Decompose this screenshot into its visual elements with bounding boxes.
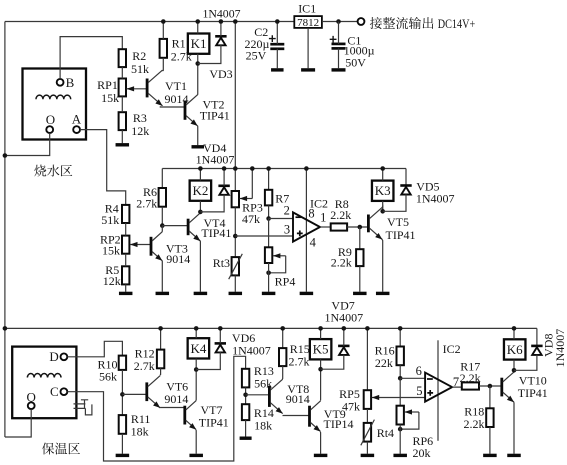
label 保温区: [42, 443, 54, 455]
svg-text:O: O: [46, 112, 55, 127]
wire R16 top to rail: [399, 328, 401, 346]
relay K1: [188, 34, 210, 54]
svg-text:1N4007: 1N4007: [202, 6, 240, 20]
wire RP6 to ground: [399, 425, 401, 454]
svg-text:O: O: [27, 390, 36, 405]
transistor VT4 TIP41: [187, 219, 190, 236]
node R13 / R14 / VT8 base: [243, 393, 248, 398]
node R16 / RP6 / pin6: [398, 376, 403, 381]
svg-text:1N4007: 1N4007: [416, 192, 455, 206]
wire R18 top: [489, 386, 491, 408]
potentiometer RP6 20k: [397, 406, 404, 425]
svg-text:C: C: [50, 384, 59, 399]
plus sign (pin3): [297, 231, 303, 237]
node K2 / VD4 / VT4 collector: [198, 210, 203, 215]
wire R1 to top rail: [162, 22, 164, 39]
resistor R7: [265, 190, 272, 206]
wire RP3 to Rt3: [234, 207, 236, 257]
wire rail to VD8: [536, 328, 538, 346]
svg-text:50V: 50V: [345, 55, 366, 69]
wire noninverting input (pin 3): [235, 235, 293, 237]
node VD7 / bottom rail: [342, 326, 347, 331]
svg-text:DC14V+: DC14V+: [438, 17, 476, 31]
svg-text:D: D: [49, 349, 58, 364]
node RP6 bottom / wiper: [398, 427, 403, 432]
node R6 / VT3 collector / VT4 base: [160, 223, 165, 228]
potentiometer RP2 15k: [122, 236, 129, 254]
svg-text:K4: K4: [190, 341, 206, 356]
wire VT5 collector up: [381, 207, 384, 212]
node R8 / R9 / VT5 base: [358, 225, 363, 230]
wire RP3 wiper up to rail: [251, 169, 253, 199]
wire R17 to VT10 base: [479, 385, 502, 387]
node R16 / bottom rail: [398, 326, 403, 331]
svg-text:2: 2: [284, 204, 290, 218]
wire RP4 to ground: [268, 263, 270, 292]
relay K3: [372, 181, 394, 201]
svg-text:TIP41: TIP41: [201, 226, 231, 240]
terminal C: [61, 388, 68, 395]
diode VD7 1N4007: [338, 345, 349, 348]
ground (C2): [271, 68, 284, 71]
svg-text:IC2: IC2: [310, 197, 328, 211]
svg-text:K1: K1: [191, 36, 207, 51]
svg-text:6: 6: [416, 364, 422, 378]
svg-text:TIP41: TIP41: [199, 415, 229, 429]
wire VT2 collector up to K1: [197, 64, 199, 95]
ground (R18): [483, 454, 497, 457]
svg-text:Rt3: Rt3: [213, 256, 230, 270]
wire O to left bus (boiler): [5, 133, 50, 155]
node bus / top rail: [233, 19, 238, 24]
wire VT3 collector up: [161, 226, 163, 232]
wire K3 top to mid rail: [382, 169, 384, 181]
resistor R9 2.2k: [356, 249, 363, 266]
wire K6 bottom: [513, 360, 515, 371]
wire RP1-R3: [121, 96, 123, 112]
resistor R1 2.7k: [160, 39, 167, 58]
wire VT9 emitter to ground: [320, 432, 322, 454]
RP4 wiper loop: [273, 255, 286, 257]
wire O to left bus (keep-warm): [5, 409, 31, 437]
svg-text:47k: 47k: [242, 212, 260, 226]
wire VT6 emitter to VT7 base: [160, 407, 185, 409]
svg-text:12k: 12k: [103, 274, 121, 288]
svg-text:Rt4: Rt4: [377, 426, 394, 440]
diode VD8 1N4007: [531, 345, 542, 348]
capacitor C1 1000u: [332, 43, 346, 46]
wire RP6 wiper to bottom: [400, 412, 419, 429]
wire IC1 output to DC terminal: [322, 21, 358, 23]
transistor VT3 9014: [150, 237, 153, 256]
svg-text:25V: 25V: [246, 49, 267, 63]
polarity + (C1): [330, 36, 337, 43]
wire inverting input (pin 6): [400, 377, 425, 379]
svg-text:RP4: RP4: [275, 275, 296, 289]
node R12 / bottom rail: [158, 326, 163, 331]
wire R15 to VT8 collector: [281, 366, 284, 379]
wire R11 to ground: [121, 434, 123, 454]
wire op-amp output to R8: [320, 226, 331, 228]
svg-text:3: 3: [284, 223, 290, 237]
wire mid rail down to R6: [161, 169, 163, 189]
wire inverting input (pin 2): [269, 218, 293, 220]
wire R12 top to rail: [160, 328, 162, 349]
wire R10 to R11: [121, 370, 123, 415]
relay K4: [188, 338, 210, 358]
wire vertical bus top-to-middle rail: [234, 22, 236, 169]
transistor VT2 TIP41: [184, 101, 187, 120]
svg-text:K6: K6: [507, 342, 523, 357]
wire RP5 top to rail: [366, 328, 368, 390]
IC2 supply line (bottom half): [437, 340, 439, 441]
resistor R17 2.2k: [462, 382, 479, 389]
wire VT8 emitter to VT9 base: [283, 414, 310, 416]
wire R9 top: [359, 227, 361, 249]
heater coil (boiler): [36, 95, 71, 99]
svg-text:TIP41: TIP41: [386, 228, 416, 242]
svg-text:R1: R1: [172, 37, 186, 51]
node RP3 wiper / mid rail: [250, 166, 255, 171]
svg-text:1: 1: [320, 211, 326, 225]
wire VD7 anode to K5 bottom: [321, 355, 344, 370]
wire B to R2 top: [60, 37, 122, 79]
node R7 / mid rail: [266, 166, 271, 171]
wire C2 to top rail: [276, 22, 278, 45]
keep-warm box 保温区: [12, 347, 76, 419]
op-amp IC2 (bottom half): [425, 373, 452, 402]
potentiometer RP1 15k: [119, 79, 126, 97]
node K3 / VD5 / VT5 collector: [380, 209, 385, 214]
svg-text:1N4007: 1N4007: [232, 344, 271, 358]
resistor R5 12k: [122, 266, 129, 284]
diode VD4 1N4007: [218, 185, 229, 188]
boiler box 烧水区: [23, 69, 87, 140]
wire RP3 top to mid rail: [234, 169, 236, 192]
node pin8 / mid rail: [304, 166, 309, 171]
node RP4 bottom / wiper: [266, 271, 271, 276]
wire VT4 emitter to ground: [199, 241, 201, 292]
ground (VT7): [189, 454, 203, 457]
RP3 wiper: [240, 198, 253, 200]
wire K3 bottom: [382, 201, 384, 211]
polarity + (C2): [269, 35, 276, 42]
svg-text:7812: 7812: [297, 17, 319, 29]
resistor R8 2.2k: [331, 223, 347, 230]
heater coil (keep-warm): [27, 374, 61, 378]
relay K2: [190, 181, 212, 201]
node RP5 / bottom rail: [365, 326, 370, 331]
resistor R16 22k: [397, 347, 404, 366]
wire R8 to VT5 base: [347, 226, 368, 228]
transistor VT9 TIP14: [308, 406, 311, 427]
wire node to VT8 base: [246, 394, 270, 396]
wire VT2 emitter to ground: [197, 126, 199, 146]
svg-text:K5: K5: [313, 342, 329, 357]
transistor VT7 TIP41: [183, 406, 186, 425]
wire VD3 cathode to rail: [220, 22, 222, 37]
ground (RP6): [393, 454, 407, 457]
wire R2-RP1: [121, 67, 123, 78]
svg-text:18k: 18k: [254, 418, 272, 432]
wire C2 to ground: [276, 49, 278, 68]
potentiometer RP3 47k: [232, 191, 239, 207]
relay K6: [504, 339, 526, 359]
ground (R5 chain): [119, 292, 133, 295]
wire node down to RP4: [268, 219, 270, 248]
potentiometer RP4: [265, 247, 272, 263]
transistor VT6 9014: [145, 382, 148, 401]
svg-text:51k: 51k: [101, 213, 119, 227]
wire IC1 ground pin: [307, 28, 309, 68]
node VD6 / bottom rail: [218, 326, 223, 331]
svg-text:IC1: IC1: [298, 1, 316, 15]
potentiometer RP5 47k: [364, 390, 371, 409]
relay K5: [310, 339, 332, 359]
node R15 / bottom rail: [280, 326, 285, 331]
wire K2 top to mid rail: [199, 169, 201, 181]
node K1 / VD3 / VT2 collector: [195, 61, 200, 66]
svg-text:56k: 56k: [99, 370, 117, 384]
svg-text:20k: 20k: [413, 446, 431, 460]
svg-text:9014: 9014: [286, 392, 310, 406]
wire op-amp2 output to R17: [452, 386, 462, 387]
wire R15 top to rail: [282, 328, 284, 348]
ground (VT3): [156, 292, 170, 295]
transistor VT1 9014: [146, 79, 149, 98]
wire R3 to ground: [121, 130, 123, 143]
svg-text:4: 4: [310, 235, 317, 249]
resistor R11 18k: [119, 415, 126, 434]
svg-text:IC2: IC2: [443, 342, 461, 356]
resistor R13 56k: [242, 369, 249, 388]
wire K1 top to rail: [197, 22, 199, 34]
svg-text:51k: 51k: [131, 62, 149, 76]
ground (Rt4): [361, 454, 375, 457]
svg-text:2.2k: 2.2k: [460, 371, 481, 385]
wire K5 bottom: [320, 359, 322, 369]
node noninverting divider tap: [233, 234, 238, 239]
resistor R12 2.7k: [157, 350, 164, 369]
node VD4 / mid rail: [222, 166, 227, 171]
wire bottom +12V rail: [5, 327, 537, 329]
resistor R15 2.7k: [279, 348, 286, 366]
wire R9 to ground: [359, 266, 361, 292]
wire VT9 collector up to K5: [320, 369, 322, 400]
node K4 / VD6 / VT7 collector: [194, 367, 199, 372]
svg-text:2.7k: 2.7k: [289, 355, 310, 369]
wire R13 to R14: [245, 387, 247, 404]
op-amp IC2 (top half): [293, 212, 320, 241]
ground (C1): [332, 68, 346, 71]
ground (VT10): [507, 454, 521, 457]
node C1 / output wire: [336, 19, 341, 24]
svg-text:VD3: VD3: [209, 67, 232, 81]
node K5 / bottom rail: [318, 326, 323, 331]
wire middle +12V rail: [162, 168, 406, 170]
ground (R9): [353, 292, 367, 295]
ground (VT4): [194, 292, 208, 295]
svg-text:A: A: [72, 111, 82, 126]
wire VT4 collector up to K2: [199, 212, 201, 213]
minus sign (pin2): [296, 216, 302, 218]
terminal A: [73, 126, 80, 133]
wire Rt4 to ground: [366, 442, 368, 454]
wire VT10 emitter to ground: [513, 402, 515, 454]
svg-text:2.2k: 2.2k: [331, 256, 352, 270]
resistor R18 2.2k: [486, 408, 493, 427]
wire K5 top to rail: [320, 328, 322, 339]
node K4 / bottom rail: [194, 326, 199, 331]
thermistor Rt3: [232, 257, 239, 275]
svg-text:K2: K2: [192, 183, 208, 198]
wire K2 bottom: [199, 201, 201, 212]
wire K4 bottom: [195, 359, 197, 370]
wire node down to RP6: [399, 378, 401, 405]
wire R16 bottom to node: [399, 365, 401, 378]
svg-text:15k: 15k: [101, 91, 119, 105]
node K3 / mid rail: [380, 166, 385, 171]
svg-text:22k: 22k: [375, 356, 393, 370]
svg-text:K3: K3: [375, 183, 391, 198]
plus sign (pin5): [427, 390, 433, 396]
svg-text:B: B: [66, 75, 75, 90]
thermistor Rt4: [364, 423, 371, 442]
ground (VT2 emitter): [192, 145, 205, 148]
svg-text:1N4007: 1N4007: [196, 153, 235, 167]
node K1 / top rail: [195, 19, 200, 24]
RP2 wiper to VT3 base: [130, 244, 151, 246]
svg-text:2.2k: 2.2k: [330, 208, 351, 222]
wire R7 bottom to node: [268, 205, 270, 218]
wire node to VT4 base: [162, 225, 188, 227]
svg-text:9014: 9014: [166, 252, 190, 266]
wire VD3 anode to K1 bottom: [198, 45, 221, 64]
resistor R14 18k: [242, 404, 249, 420]
wire R7 top to mid rail: [268, 169, 270, 190]
wire C1 to ground: [338, 48, 340, 68]
svg-text:12k: 12k: [131, 124, 149, 138]
svg-text:VT1: VT1: [165, 79, 187, 93]
wire VD6 anode to K4 bottom: [196, 352, 220, 369]
wire node to VT6 base: [122, 393, 146, 395]
wire A to divider: [80, 130, 126, 205]
ground (R14): [240, 437, 252, 440]
wire C to R13 top (long route): [67, 356, 245, 461]
svg-text:2.2k: 2.2k: [464, 417, 485, 431]
wire R14 to ground: [245, 420, 247, 437]
wire R5 to ground: [125, 284, 127, 291]
svg-text:9014: 9014: [164, 392, 188, 406]
svg-text:18k: 18k: [131, 425, 149, 439]
node VD3 / top rail: [219, 19, 224, 24]
node R17 / R18 / VT10 base: [488, 384, 493, 389]
terminal O (keep-warm): [28, 402, 35, 409]
node bus / RP3 / mid rail: [233, 166, 238, 171]
svg-text:2.7k: 2.7k: [136, 197, 157, 211]
svg-text:47k: 47k: [342, 400, 360, 414]
wire VT7 emitter to ground: [195, 430, 197, 454]
node bottom rail / left bus junction: [3, 326, 8, 331]
label 接整流输出: [370, 17, 382, 29]
svg-text:1N4007: 1N4007: [553, 329, 567, 368]
RP6 wiper loop: [405, 411, 419, 413]
RP5 wiper to pin 5: [372, 397, 425, 399]
transistor VT5 TIP41: [367, 215, 370, 233]
wire K6 top to rail: [513, 328, 515, 339]
terminal B: [57, 79, 64, 86]
wire R12 to VT6 collector: [159, 368, 162, 375]
ground (IC1): [301, 68, 315, 71]
label 烧水区: [34, 165, 46, 177]
resistor R4 51k: [122, 205, 129, 223]
capacitor C2 220u: [270, 43, 284, 46]
ground (Rt3): [229, 292, 243, 295]
ground (VT5): [376, 292, 390, 295]
wire VD4 anode to K2 bottom: [200, 195, 224, 212]
wire left bus: [4, 22, 6, 438]
wire VT10 collector up: [513, 370, 515, 372]
terminal O (boiler): [46, 126, 53, 133]
wire VD5 anode to K3 bottom: [383, 194, 406, 211]
wire R1 to VT1 collector: [162, 58, 165, 71]
wire RP2-R5: [125, 254, 127, 267]
IC regulator U IC1 7812 box: [294, 16, 322, 28]
node C2 / top rail: [275, 19, 280, 24]
wire RP4 wiper to bottom: [269, 256, 286, 273]
transistor VT8 9014: [268, 386, 271, 407]
wire C1 to output wire: [338, 22, 340, 44]
wire RP5 to Rt4: [366, 409, 368, 423]
svg-text:TIP41: TIP41: [518, 386, 548, 400]
wire D to R10 top: [67, 341, 122, 357]
node R1 / top rail: [161, 19, 166, 24]
ground (R3 chain): [116, 143, 130, 146]
wire K1 bottom: [197, 54, 199, 64]
resistor R6 2.7k: [159, 188, 166, 207]
chassis/heater mount symbol: [74, 400, 92, 415]
wire mid rail to VD5: [405, 169, 407, 186]
ground (IC2 pin4): [300, 292, 314, 295]
wire VD6 cathode to rail: [219, 328, 221, 343]
wire VT1 emitter to VT2 base: [160, 105, 185, 108]
wire VT5 emitter to ground: [381, 240, 384, 292]
wire VT3 emitter to ground: [161, 261, 163, 292]
svg-text:15k: 15k: [102, 244, 120, 258]
RP1 wiper to VT1 base: [127, 88, 148, 90]
node O wire / left bus: [3, 153, 8, 158]
diode VD5 1N4007: [400, 184, 411, 187]
svg-text:2.7k: 2.7k: [134, 359, 155, 373]
svg-text:RP1: RP1: [97, 78, 118, 92]
svg-text:5: 5: [416, 384, 422, 398]
ground (R11): [116, 454, 129, 457]
wire VD4 cathode to mid rail: [223, 169, 225, 186]
wire K4 top to rail: [195, 328, 197, 338]
transistor VT10 TIP41: [500, 378, 503, 397]
ground (VT9): [314, 454, 328, 457]
wire top +12V rail: [5, 21, 294, 23]
svg-text:R2: R2: [132, 49, 146, 63]
svg-text:1N4007: 1N4007: [324, 310, 363, 324]
svg-text:TIP14: TIP14: [324, 417, 354, 431]
terminal D: [61, 353, 68, 360]
resistor R2 51k: [119, 49, 126, 67]
node K6 / bottom rail: [512, 326, 517, 331]
minus sign (pin6): [427, 378, 433, 380]
node K6 / VD8 / VT10 collector: [512, 368, 517, 373]
node R7 / RP4 / pin2: [266, 216, 271, 221]
